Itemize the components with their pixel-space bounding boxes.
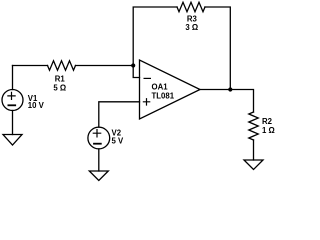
op-amp OA1 TL081 (140, 60, 201, 119)
junction node A (131, 63, 135, 67)
resistor R3 3 Ohm (177, 2, 205, 32)
svg-text:3 Ω: 3 Ω (185, 23, 198, 32)
svg-text:R2: R2 (262, 117, 273, 126)
svg-text:1 Ω: 1 Ω (262, 126, 275, 135)
wire non-inverting input to V2 (99, 102, 140, 127)
wire V2 bottom lead (98, 149, 100, 171)
wire feedback right side down to output node (205, 7, 230, 90)
voltage source V2 5 V (88, 127, 124, 149)
ground for R2 (244, 160, 263, 170)
svg-text:10 V: 10 V (28, 101, 45, 110)
svg-text:5 Ω: 5 Ω (53, 84, 66, 93)
voltage source V1 10 V (2, 90, 45, 111)
wire from R1 to node A (76, 65, 134, 67)
resistor R1 5 Ohm (48, 61, 76, 93)
svg-text:OA1: OA1 (152, 82, 169, 91)
wire from V1 to R1 (13, 65, 48, 67)
svg-text:R1: R1 (55, 75, 66, 84)
resistor R2 1 Ohm (249, 112, 275, 140)
wire output to R2 (200, 90, 254, 113)
wire node A to inverting input (133, 66, 139, 78)
svg-text:5 V: 5 V (112, 137, 125, 146)
wire feedback top-left from node A up and across (133, 7, 177, 66)
ground for V1 (3, 135, 22, 146)
wire R2 bottom lead (253, 140, 255, 160)
wire V1 top lead (12, 66, 14, 90)
junction output node (228, 87, 232, 91)
svg-text:TL081: TL081 (152, 92, 175, 101)
ground for V2 (89, 171, 108, 181)
wire V1 bottom lead (12, 111, 14, 135)
